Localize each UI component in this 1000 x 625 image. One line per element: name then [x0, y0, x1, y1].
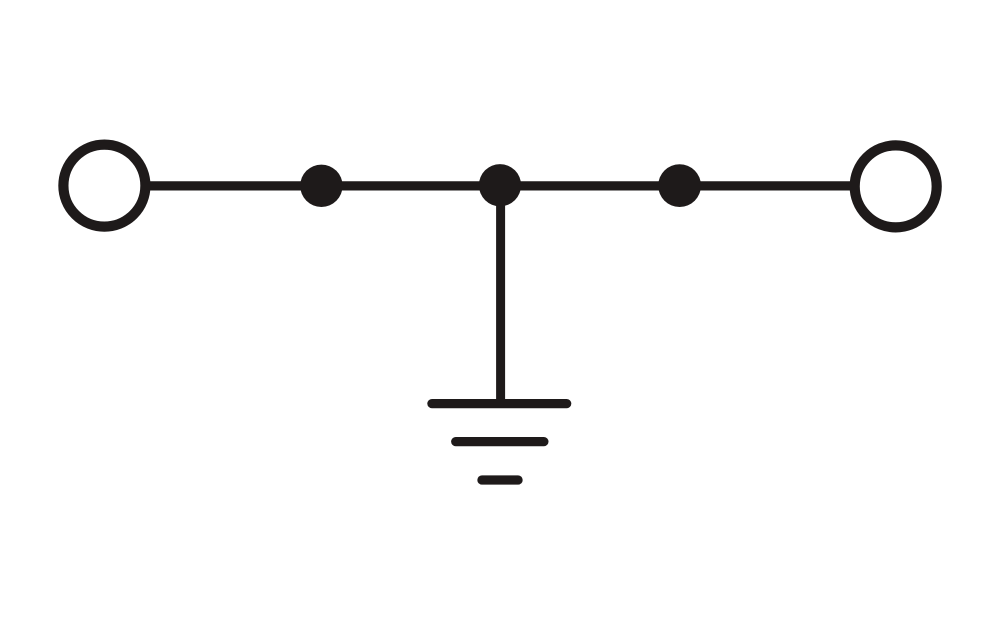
- wire: terminal 1 to center node: [150, 181, 501, 190]
- junction dot (right bridge contact): [658, 164, 701, 207]
- junction dot (left bridge contact): [300, 165, 342, 207]
- node: center junction: [479, 164, 521, 206]
- wire: center node to terminal 2: [500, 181, 851, 190]
- terminal 1 (left screw-clamp terminal circle): [63, 145, 145, 227]
- ground (protective earth symbol): [432, 404, 567, 480]
- terminal 2 (right screw-clamp terminal circle): [855, 145, 937, 227]
- wire: center node to ground symbol: [496, 186, 505, 404]
